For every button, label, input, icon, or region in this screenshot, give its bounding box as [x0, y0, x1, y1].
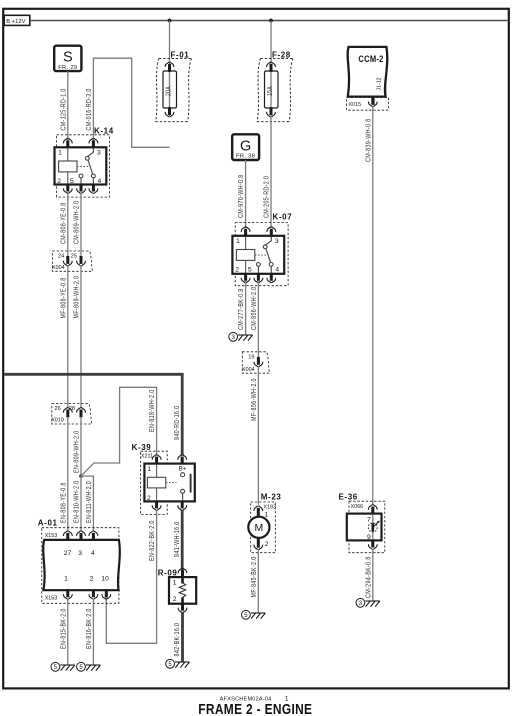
- wire EN-822-BK-2.0 K-39 pin 2 to A-01 pin 10: [106, 510, 156, 644]
- svg-text:X066: X066: [351, 504, 364, 510]
- svg-text:2: 2: [147, 495, 151, 502]
- relay K-07: [232, 213, 292, 286]
- svg-text:10: 10: [101, 576, 109, 583]
- svg-text:EN-822-BK-2.0: EN-822-BK-2.0: [148, 520, 156, 561]
- svg-text:X010: X010: [51, 418, 64, 424]
- svg-text:1: 1: [265, 511, 269, 518]
- wire CM-808-YE-0.8 from K-14 pin 2: [60, 192, 68, 256]
- svg-text:X183: X183: [263, 504, 276, 510]
- svg-text:4: 4: [98, 178, 102, 185]
- svg-text:3: 3: [97, 149, 101, 156]
- svg-text:2: 2: [265, 541, 269, 548]
- relay K-14: [55, 127, 114, 198]
- svg-text:CM-839-WH-0.8: CM-839-WH-0.8: [365, 119, 373, 162]
- connector X010 pins 26/28: [51, 404, 92, 425]
- svg-text:1: 1: [58, 149, 62, 156]
- svg-text:20A: 20A: [165, 86, 173, 96]
- svg-text:EN-809-WH-2.0: EN-809-WH-2.0: [73, 430, 81, 473]
- svg-text:FR. 38: FR. 38: [236, 154, 255, 160]
- svg-text:EN-808-YE-0.8: EN-808-YE-0.8: [60, 482, 68, 523]
- wire MF-845-BK-2.0 M-23 to ground: [250, 549, 258, 613]
- wire CM-294-BK-0.8 E-36 to ground: [365, 549, 373, 602]
- svg-text:A-01: A-01: [38, 519, 58, 528]
- svg-text:2: 2: [173, 596, 177, 603]
- svg-text:X015: X015: [349, 102, 362, 108]
- svg-text:FR. 29: FR. 29: [58, 65, 77, 71]
- svg-text:X211: X211: [141, 454, 153, 460]
- wire EN-818-WH-2.0 from K-39 pin 1 to junction: [81, 387, 157, 476]
- connector X004 pin 19: [242, 352, 270, 373]
- svg-text:FRAME 2 - ENGINE: FRAME 2 - ENGINE: [198, 701, 312, 716]
- relay K-39: [132, 443, 195, 514]
- svg-text:K-07: K-07: [273, 213, 293, 222]
- svg-text:G: G: [240, 138, 251, 154]
- wire 842-BK-16.0 R-09 to ground: [173, 612, 182, 662]
- svg-text:5: 5: [248, 266, 252, 273]
- wire MF-808-YE-0.8 from X004-24: [60, 265, 68, 408]
- svg-text:S: S: [63, 50, 73, 66]
- node bus to F-01: [168, 19, 172, 23]
- svg-text:CM-016-RD-3.0: CM-016-RD-3.0: [85, 88, 93, 130]
- svg-text:EN-818-WH-2.0: EN-818-WH-2.0: [148, 389, 156, 432]
- svg-text:1: 1: [173, 580, 177, 587]
- svg-text:MF-845-BK-2.0: MF-845-BK-2.0: [250, 556, 258, 597]
- wire CM-839-WH-0.8 from CCM-2 to E-36: [365, 106, 373, 505]
- control unit A-01: [38, 519, 120, 604]
- source box G FR.38: [232, 134, 259, 160]
- svg-text:CM-294-BK-0.8: CM-294-BK-0.8: [365, 556, 373, 598]
- wire 840-RD-16.0 battery feed to K-39 B+: [4, 374, 182, 455]
- ground 5 for M-23: [242, 610, 266, 619]
- ground 3 for E-36: [356, 598, 380, 607]
- svg-text:24: 24: [58, 254, 64, 260]
- wire CM-277-BK-0.8 K-07 pin 2 to ground: [237, 281, 245, 335]
- node junction EN-809/EN-810/EN-811/EN-818: [79, 474, 83, 478]
- svg-text:MF-856-WH-2.0: MF-856-WH-2.0: [250, 378, 258, 421]
- fuse F-01 20A: [156, 51, 192, 122]
- svg-text:9: 9: [367, 534, 371, 541]
- svg-text:4: 4: [275, 266, 279, 273]
- title block: [198, 695, 312, 716]
- connector X015 of CCM-2: [347, 97, 389, 111]
- ground 5 for R-09: [166, 659, 190, 668]
- svg-text:CM-970-WH-0.8: CM-970-WH-0.8: [237, 175, 245, 218]
- wire EN-810-WH-2.0 junction to A-01 pin 3: [73, 476, 81, 531]
- svg-text:M: M: [255, 522, 264, 534]
- svg-text:7: 7: [367, 517, 371, 524]
- svg-text:X004: X004: [242, 367, 255, 373]
- svg-text:1: 1: [147, 466, 151, 473]
- wire 841-WH-16.0 K-39 to R-09: [173, 510, 182, 571]
- svg-text:3: 3: [78, 550, 82, 557]
- svg-text:2: 2: [90, 576, 94, 583]
- fuse F-28 15A: [257, 51, 293, 122]
- svg-text:MF-808-YE-0.8: MF-808-YE-0.8: [60, 277, 68, 318]
- wire CM-856-WH-2.0 K-07 pin 5 to X004: [250, 281, 258, 357]
- svg-text:E-36: E-36: [339, 493, 358, 502]
- svg-text:CCM-2: CCM-2: [358, 53, 383, 64]
- svg-text:EN-810-WH-2.0: EN-810-WH-2.0: [73, 480, 81, 523]
- ground 5 A-01 pin 1: [51, 662, 75, 671]
- svg-text:1: 1: [64, 576, 68, 583]
- svg-text:EN-815-BK-2.0: EN-815-BK-2.0: [60, 608, 68, 649]
- svg-text:26: 26: [55, 406, 61, 412]
- svg-text:CM-205-RD-2.0: CM-205-RD-2.0: [263, 176, 271, 218]
- power rail B +12V: [4, 15, 30, 25]
- ground 3 for K-07: [229, 332, 253, 341]
- svg-text:EN-811-WH-2.0: EN-811-WH-2.0: [85, 481, 93, 523]
- svg-text:CM-809-WH-2.0: CM-809-WH-2.0: [73, 201, 81, 244]
- svg-text:CM-277-BK-0.8: CM-277-BK-0.8: [237, 288, 245, 330]
- svg-text:X153: X153: [45, 595, 58, 601]
- ground 5 A-01 pin 2: [77, 662, 101, 671]
- wire EN-815-BK-2.0 A-01 pin 1 to ground: [60, 599, 68, 666]
- svg-text:CM-808-YE-0.8: CM-808-YE-0.8: [60, 202, 68, 244]
- svg-text:840-RD-16.0: 840-RD-16.0: [173, 406, 181, 440]
- svg-text:5: 5: [70, 178, 74, 185]
- sensor E-36: [339, 493, 385, 553]
- svg-text:841-WH-16.0: 841-WH-16.0: [173, 521, 181, 557]
- wire EN-816-BK-2.0 A-01 pin 2 to ground: [85, 599, 93, 666]
- wire CM-970-WH-0.8 G to K-07 pin 1: [237, 160, 245, 228]
- svg-text:CM-856-WH-2.0: CM-856-WH-2.0: [250, 287, 258, 330]
- node bus to F-28: [269, 19, 273, 23]
- resistor R-09: [158, 568, 197, 612]
- wire MF-856-WH-2.0 X004 to M-23: [250, 366, 258, 505]
- svg-text:CM-125-RD-1.0: CM-125-RD-1.0: [60, 88, 68, 130]
- wire CM-205-RD-2.0 from F-28 to K-07 pin 3: [263, 116, 271, 228]
- svg-text:K-39: K-39: [132, 443, 152, 452]
- svg-text:EN-816-BK-2.0: EN-816-BK-2.0: [85, 608, 93, 649]
- svg-text:2: 2: [235, 266, 239, 273]
- wire bus to fuse F-28: [270, 21, 272, 64]
- svg-text:M-23: M-23: [261, 493, 282, 502]
- svg-text:27: 27: [64, 550, 72, 557]
- svg-text:K-14: K-14: [94, 127, 114, 136]
- svg-text:19: 19: [248, 354, 254, 360]
- svg-text:J1-12: J1-12: [376, 77, 382, 90]
- svg-text:MF-809-WH-2.0: MF-809-WH-2.0: [73, 276, 81, 319]
- svg-text:B+: B+: [179, 467, 187, 473]
- wire CM-125-RD-1.0 from S to K-14 pin 1: [60, 71, 68, 140]
- svg-text:3: 3: [275, 238, 279, 245]
- wire bus to fuse F-01: [169, 21, 171, 64]
- svg-text:4: 4: [91, 550, 95, 557]
- wire EN-811-WH-2.0 junction to A-01 pin 4: [81, 476, 93, 531]
- svg-text:842-BK-16.0: 842-BK-16.0: [173, 623, 181, 657]
- svg-text:25: 25: [71, 254, 77, 260]
- wire CM-016-RD-3.0 from K-14 pin 3 to F-01: [85, 58, 169, 147]
- svg-text:B +12V: B +12V: [6, 19, 25, 25]
- connector X004 pins 24/25: [52, 251, 93, 271]
- wire EN-808-YE-0.8 from X010 to A-01 pin 27: [60, 417, 68, 531]
- motor M-23: [248, 493, 281, 553]
- wire MF-809-WH-2.0 from X004-25: [73, 265, 81, 408]
- svg-text:X004: X004: [52, 265, 65, 271]
- wire B+12V bus: [30, 20, 508, 22]
- source box S FR.29: [54, 46, 81, 71]
- wire CM-809-WH-2.0 from K-14 pin 5: [73, 192, 81, 256]
- svg-text:2: 2: [57, 178, 61, 185]
- svg-text:X153: X153: [45, 533, 58, 539]
- component CCM-2: [348, 47, 388, 105]
- svg-text:15A: 15A: [266, 86, 274, 96]
- wire EN-809-WH-2.0 from X010 to junction: [73, 417, 81, 476]
- svg-text:1: 1: [236, 238, 240, 245]
